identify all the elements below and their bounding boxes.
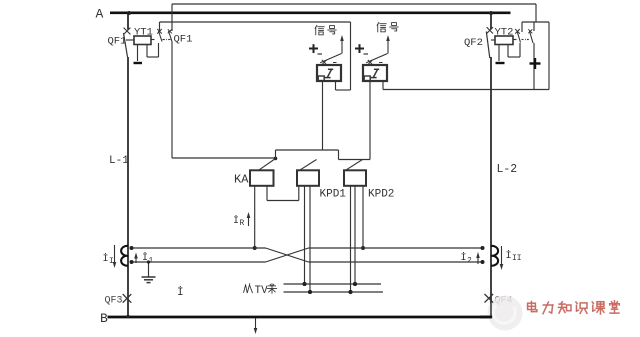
svg-text:YT2: YT2: [495, 27, 514, 39]
svg-text:KPD1: KPD1: [320, 189, 347, 201]
svg-text:L-1: L-1: [109, 155, 129, 167]
svg-text:A: A: [96, 7, 104, 22]
svg-text:İ: İ: [461, 251, 467, 264]
svg-text:İ: İ: [506, 249, 512, 262]
svg-text:İ: İ: [233, 214, 239, 227]
svg-text:II: II: [512, 254, 522, 263]
svg-text:TV: TV: [255, 285, 269, 297]
svg-text:L-2: L-2: [497, 163, 518, 176]
svg-text:QF1: QF1: [108, 36, 127, 48]
svg-text:2: 2: [467, 257, 472, 266]
svg-text:İ: İ: [177, 286, 184, 299]
svg-text:YT1: YT1: [134, 27, 153, 39]
svg-text:QF1: QF1: [174, 34, 193, 46]
svg-text:QF3: QF3: [105, 296, 123, 307]
svg-text:I: I: [109, 257, 114, 266]
svg-text:QF2: QF2: [464, 37, 483, 49]
svg-text:B: B: [100, 311, 108, 326]
svg-text:KPD2: KPD2: [368, 189, 394, 201]
svg-text:R: R: [240, 219, 245, 228]
svg-text:KA: KA: [234, 173, 249, 187]
svg-text:İ: İ: [103, 252, 109, 265]
